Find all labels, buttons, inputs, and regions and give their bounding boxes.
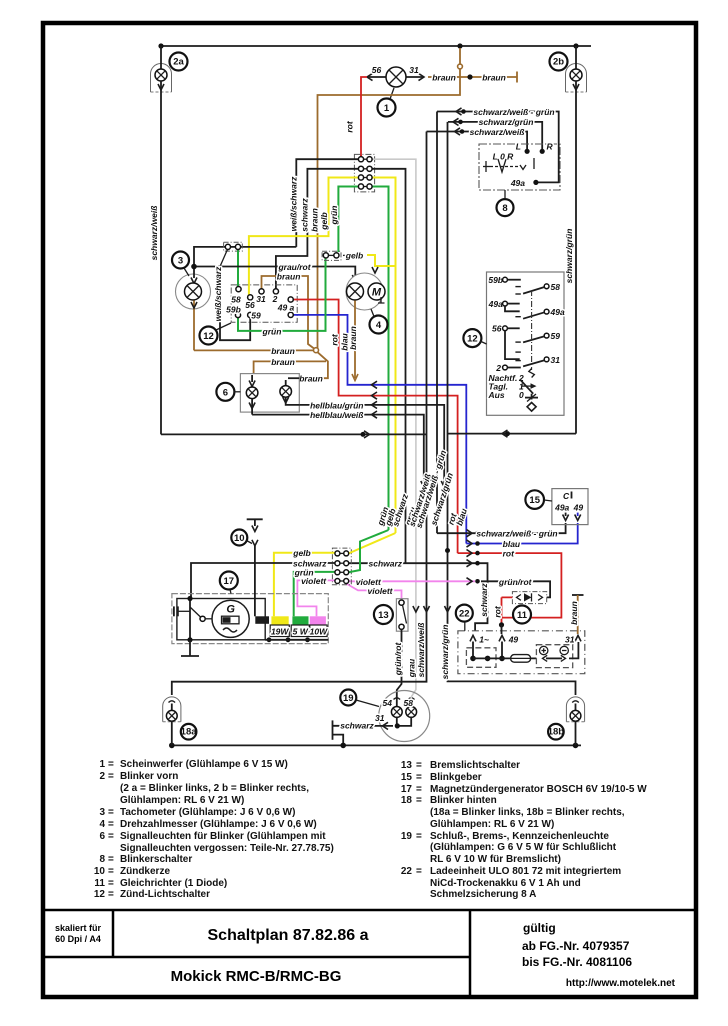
- svg-text:18b: 18b: [548, 726, 565, 737]
- svg-text:5 W: 5 W: [293, 627, 309, 637]
- svg-text:49a: 49a: [550, 307, 565, 317]
- svg-text:4: 4: [99, 819, 105, 830]
- svg-text:=: =: [108, 878, 114, 889]
- svg-text:8: 8: [502, 203, 507, 214]
- svg-text:L 0 R: L 0 R: [493, 152, 514, 162]
- svg-text:Mokick RMC-B/RMC-BG: Mokick RMC-B/RMC-BG: [171, 968, 342, 985]
- svg-text:59: 59: [251, 311, 261, 321]
- svg-text:13: 13: [378, 610, 389, 621]
- svg-text:Aus: Aus: [488, 390, 505, 400]
- svg-text:gültig: gültig: [523, 921, 556, 935]
- svg-text:Signalleuchten vergossen: Teil: Signalleuchten vergossen: Teile-Nr. 27.7…: [120, 843, 334, 854]
- svg-text:18: 18: [401, 795, 413, 806]
- svg-text:15: 15: [401, 772, 413, 783]
- svg-text:schwarz: schwarz: [340, 720, 374, 730]
- svg-text:schwarz: schwarz: [369, 559, 403, 569]
- svg-text:schwarz/weiß: schwarz/weiß: [416, 623, 426, 678]
- svg-text:2a: 2a: [173, 57, 184, 68]
- svg-text:6: 6: [223, 387, 228, 398]
- svg-text:=: =: [108, 759, 114, 770]
- svg-text:22: 22: [401, 866, 413, 877]
- svg-text:schwarz/weiß - grün: schwarz/weiß - grün: [476, 529, 557, 539]
- svg-text:grau: grau: [407, 658, 417, 678]
- svg-text:31: 31: [565, 634, 575, 644]
- svg-text:grau/rot: grau/rot: [277, 262, 311, 272]
- svg-text:gelb: gelb: [319, 212, 329, 230]
- svg-text:6: 6: [99, 831, 105, 842]
- svg-text:schwarz/weiß: schwarz/weiß: [149, 206, 159, 261]
- svg-text:hellblau/grün: hellblau/grün: [310, 400, 363, 410]
- svg-text:weiß/schwarz: weiß/schwarz: [289, 176, 299, 232]
- svg-text:49 a: 49 a: [277, 303, 295, 313]
- svg-text:2b: 2b: [553, 57, 564, 68]
- svg-text:braun: braun: [277, 272, 301, 282]
- svg-text:L: L: [516, 142, 521, 152]
- svg-text:violett: violett: [301, 576, 327, 586]
- svg-text:54: 54: [383, 698, 393, 708]
- svg-text:Blinkgeber: Blinkgeber: [430, 772, 482, 783]
- svg-text:Schluß-, Brems-, Kennzeichenle: Schluß-, Brems-, Kennzeichenleuchte: [430, 831, 609, 842]
- svg-text:8: 8: [99, 854, 105, 865]
- svg-text:braun: braun: [569, 601, 579, 625]
- svg-text:Gleichrichter (1 Diode): Gleichrichter (1 Diode): [120, 878, 227, 889]
- svg-text:Glühlampen: RL 6 V 21 W): Glühlampen: RL 6 V 21 W): [120, 795, 244, 806]
- svg-text:braun: braun: [432, 73, 456, 83]
- svg-text:Blinker vorn: Blinker vorn: [120, 771, 178, 782]
- svg-text:blau: blau: [339, 332, 349, 350]
- svg-text:C: C: [563, 491, 570, 501]
- svg-text:braun: braun: [482, 73, 506, 83]
- svg-text:=: =: [108, 854, 114, 865]
- svg-text:3: 3: [99, 807, 105, 818]
- svg-text:braun: braun: [299, 374, 323, 384]
- svg-text:2: 2: [99, 771, 105, 782]
- svg-text:braun: braun: [348, 326, 358, 350]
- svg-text:RL 6 V 10 W für Bremslicht): RL 6 V 10 W für Bremslicht): [430, 854, 561, 865]
- svg-text:R: R: [547, 142, 554, 152]
- svg-text:Tachometer (Glühlampe: J 6 V 0: Tachometer (Glühlampe: J 6 V 0,6 W): [120, 807, 295, 818]
- svg-text:10: 10: [234, 533, 245, 544]
- svg-text:60 Dpi / A4: 60 Dpi / A4: [55, 934, 101, 944]
- svg-text:59b: 59b: [226, 305, 241, 315]
- svg-text:schwarz/grün: schwarz/grün: [440, 625, 450, 680]
- svg-text:=: =: [108, 831, 114, 842]
- svg-text:19: 19: [343, 693, 354, 704]
- svg-text:0: 0: [519, 390, 524, 400]
- svg-text:grün: grün: [329, 206, 339, 226]
- svg-text:Bremslichtschalter: Bremslichtschalter: [430, 760, 520, 771]
- svg-text:(18a = Blinker links, 18b = Bl: (18a = Blinker links, 18b = Blinker rech…: [430, 807, 625, 818]
- svg-text:=: =: [416, 795, 422, 806]
- svg-text:bis FG.-Nr. 4081106: bis FG.-Nr. 4081106: [522, 955, 632, 969]
- svg-text:49a: 49a: [554, 503, 569, 513]
- svg-text:15: 15: [529, 495, 540, 506]
- svg-text:gelb: gelb: [292, 548, 310, 558]
- svg-text:schwarz/weiß - grün: schwarz/weiß - grün: [473, 107, 554, 117]
- svg-text:Ladeeinheit ULO 801 72 mit int: Ladeeinheit ULO 801 72 mit integriertem: [430, 866, 621, 877]
- svg-text:grün/rot: grün/rot: [393, 642, 403, 677]
- svg-text:Schmelzsicherung 8 A: Schmelzsicherung 8 A: [430, 889, 536, 900]
- svg-text:56: 56: [492, 324, 502, 334]
- svg-text:skaliert für: skaliert für: [55, 923, 102, 933]
- svg-text:rot: rot: [493, 605, 503, 618]
- svg-text:49a: 49a: [488, 299, 503, 309]
- svg-text:49a: 49a: [510, 178, 525, 188]
- svg-text:56: 56: [245, 300, 255, 310]
- svg-text:22: 22: [459, 609, 470, 620]
- svg-text:schwarz/weiß: schwarz/weiß: [470, 127, 525, 137]
- svg-text:11: 11: [94, 878, 105, 889]
- svg-text:(2 a = Blinker links, 2 b = Bl: (2 a = Blinker links, 2 b = Blinker rech…: [120, 783, 309, 794]
- svg-text:rot: rot: [345, 120, 355, 133]
- svg-text:braun: braun: [271, 357, 295, 367]
- svg-text:3: 3: [178, 256, 183, 267]
- svg-text:31: 31: [375, 713, 385, 723]
- svg-text:12: 12: [467, 334, 478, 345]
- svg-text:Zündkerze: Zündkerze: [120, 866, 170, 877]
- svg-text:19: 19: [401, 831, 413, 842]
- svg-text:Signalleuchten für Blinker (Gl: Signalleuchten für Blinker (Glühlampen m…: [120, 831, 326, 842]
- svg-text:18a: 18a: [181, 726, 198, 737]
- svg-text:58: 58: [231, 295, 241, 305]
- svg-text:58: 58: [404, 698, 414, 708]
- svg-text:4: 4: [376, 320, 382, 331]
- svg-text:1~: 1~: [479, 634, 489, 644]
- svg-text:braun: braun: [309, 208, 319, 232]
- svg-text:rot: rot: [503, 549, 516, 559]
- svg-text:=: =: [416, 831, 422, 842]
- svg-text:1: 1: [99, 759, 105, 770]
- svg-text:G: G: [226, 604, 235, 616]
- svg-text:Zünd-Lichtschalter: Zünd-Lichtschalter: [120, 889, 210, 900]
- svg-text:NiCd-Trockenakku 6 V 1 Ah und: NiCd-Trockenakku 6 V 1 Ah und: [430, 878, 581, 889]
- svg-text:grün/rot: grün/rot: [498, 577, 533, 587]
- svg-text:Magnetzündergenerator BOSCH 6V: Magnetzündergenerator BOSCH 6V 19/10-5 W: [430, 784, 647, 795]
- svg-text:schwarz/grün: schwarz/grün: [564, 229, 574, 284]
- svg-text:2: 2: [495, 363, 501, 373]
- svg-text:(Glühlampen: G 6 V 5 W für Sch: (Glühlampen: G 6 V 5 W für Schlußlicht: [430, 842, 617, 853]
- svg-text:2: 2: [272, 294, 278, 304]
- svg-text:=: =: [416, 772, 422, 783]
- svg-text:Drehzahlmesser (Glühlampe: J 6: Drehzahlmesser (Glühlampe: J 6 V 0,6 W): [120, 819, 317, 830]
- svg-text:17: 17: [224, 576, 235, 587]
- svg-text:31: 31: [409, 65, 419, 75]
- svg-text:Schaltplan 87.82.86 a: Schaltplan 87.82.86 a: [208, 927, 369, 944]
- svg-text:Blinkerschalter: Blinkerschalter: [120, 854, 192, 865]
- svg-text:weiß/schwarz: weiß/schwarz: [213, 266, 223, 322]
- svg-text:schwarz: schwarz: [300, 197, 310, 231]
- svg-text:=: =: [108, 807, 114, 818]
- svg-text:blau: blau: [503, 539, 521, 549]
- svg-text:11: 11: [517, 610, 528, 621]
- svg-text:ab FG.-Nr. 4079357: ab FG.-Nr. 4079357: [522, 939, 630, 953]
- svg-text:=: =: [108, 866, 114, 877]
- svg-text:59: 59: [551, 331, 561, 341]
- svg-text:13: 13: [401, 760, 413, 771]
- svg-text:10: 10: [94, 866, 106, 877]
- svg-text:M: M: [372, 287, 382, 299]
- svg-text:19W: 19W: [271, 627, 289, 637]
- svg-text:Glühlampen: RL 6 V 21 W): Glühlampen: RL 6 V 21 W): [430, 819, 554, 830]
- svg-text:1: 1: [384, 103, 390, 114]
- svg-text:gelb: gelb: [345, 251, 363, 261]
- svg-text:Scheinwerfer (Glühlampe 6 V 15: Scheinwerfer (Glühlampe 6 V 15 W): [120, 759, 288, 770]
- svg-text:49: 49: [508, 634, 519, 644]
- svg-text:rot: rot: [330, 333, 340, 346]
- svg-text:31: 31: [256, 294, 266, 304]
- svg-text:12: 12: [94, 889, 106, 900]
- svg-text:59b: 59b: [488, 275, 503, 285]
- svg-text:violett: violett: [367, 586, 393, 596]
- svg-text:58: 58: [551, 282, 561, 292]
- svg-text:=: =: [108, 889, 114, 900]
- svg-text:49: 49: [573, 503, 584, 513]
- svg-text:grün: grün: [262, 326, 282, 336]
- svg-text:=: =: [108, 819, 114, 830]
- svg-text:braun: braun: [271, 346, 295, 356]
- svg-text:schwarz: schwarz: [479, 582, 489, 616]
- svg-text:12: 12: [203, 331, 214, 342]
- svg-text:=: =: [108, 771, 114, 782]
- svg-text:56: 56: [372, 65, 382, 75]
- svg-text:=: =: [416, 784, 422, 795]
- svg-text:=: =: [416, 866, 422, 877]
- svg-text:schwarz/grün: schwarz/grün: [479, 117, 534, 127]
- svg-text:hellblau/weiß: hellblau/weiß: [310, 410, 363, 420]
- svg-text:=: =: [416, 760, 422, 771]
- svg-text:10W: 10W: [310, 627, 328, 637]
- svg-text:http://www.motelek.net: http://www.motelek.net: [566, 978, 676, 989]
- svg-text:Blinker hinten: Blinker hinten: [430, 795, 497, 806]
- svg-text:31: 31: [551, 355, 561, 365]
- svg-text:17: 17: [401, 784, 413, 795]
